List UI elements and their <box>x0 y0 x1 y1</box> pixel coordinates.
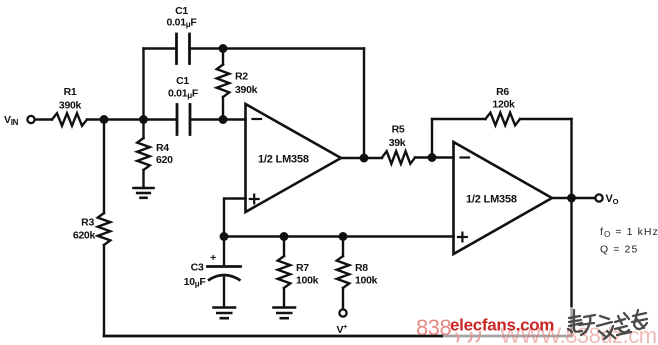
ground (C3) <box>214 306 236 309</box>
node F <box>428 153 437 162</box>
svg-text:100k: 100k <box>296 275 319 287</box>
svg-text:C1: C1 <box>176 75 189 87</box>
resistor R4 <box>142 120 144 139</box>
wire down to op-amp output <box>363 49 365 159</box>
wire R6 branch up <box>431 119 433 158</box>
svg-text:R7: R7 <box>296 262 309 274</box>
wire <box>415 156 454 158</box>
ground (R7) <box>274 306 296 309</box>
svg-text:120k: 120k <box>492 99 515 111</box>
watermark overlay band <box>443 307 658 345</box>
op-amp U1B triangle <box>454 142 553 254</box>
svg-text:+: + <box>210 252 216 264</box>
resistor R2 <box>222 49 224 65</box>
node I (R8) <box>339 232 348 241</box>
op-amp U1A plus sign <box>250 198 259 200</box>
svg-text:R3: R3 <box>81 217 94 229</box>
svg-text:C3: C3 <box>191 262 204 274</box>
node B <box>139 115 148 124</box>
wire <box>87 118 177 120</box>
op-amp U1B plus sign <box>458 236 467 238</box>
wire <box>103 245 105 336</box>
svg-text:390k: 390k <box>59 100 82 112</box>
svg-text:100k: 100k <box>355 275 378 287</box>
capacitor C1 (lower) <box>176 105 179 135</box>
ground (R4) <box>134 187 154 190</box>
node J (op2 output) <box>567 194 576 203</box>
svg-text:620: 620 <box>156 154 173 166</box>
wire plus input <box>224 199 246 237</box>
svg-text:0.01μF: 0.01μF <box>168 88 199 101</box>
capacitor C3 <box>223 237 225 267</box>
bottom rail <box>224 235 454 237</box>
resistor R1 <box>52 113 87 126</box>
terminal V+ <box>339 309 346 316</box>
svg-text:elecfans.com: elecfans.com <box>450 316 554 335</box>
op-amp U1A triangle <box>246 104 342 212</box>
terminal VO <box>595 194 602 201</box>
wire op1 output <box>341 157 382 159</box>
svg-text:620k: 620k <box>73 230 96 242</box>
resistor R7 <box>283 237 285 257</box>
wire <box>190 118 246 120</box>
op-amp U1B minus sign <box>461 156 470 158</box>
wire feedback down <box>570 198 572 336</box>
svg-text:R1: R1 <box>64 86 77 98</box>
svg-text:1/2 LM358: 1/2 LM358 <box>466 194 517 206</box>
resistor R5 <box>382 151 415 164</box>
svg-text:R2: R2 <box>235 71 248 83</box>
svg-text:838: 838 <box>416 315 451 340</box>
node E (op1 output) <box>360 154 369 163</box>
wire op2 output <box>552 197 595 199</box>
op-amp U1A minus sign <box>253 118 262 120</box>
wire top rail right <box>190 47 365 49</box>
bottom feedback rail <box>104 335 572 338</box>
node H (R7) <box>280 232 289 241</box>
resistor R8 <box>342 237 344 257</box>
resistor R6 <box>486 113 521 126</box>
wire top rail left <box>144 47 177 49</box>
svg-text:R5: R5 <box>392 124 405 136</box>
input terminal VIN <box>27 116 34 123</box>
wire top branch vertical <box>142 49 144 120</box>
node G (C3) <box>220 232 229 241</box>
node D <box>219 115 228 124</box>
resistor R3 <box>98 213 111 245</box>
wire R3 branch vertical <box>103 120 105 214</box>
svg-text:390k: 390k <box>235 84 258 96</box>
node C <box>219 44 228 53</box>
svg-text:39k: 39k <box>389 137 406 149</box>
svg-text:C1: C1 <box>175 5 188 17</box>
watermark pink glyph blobs (hidden CJK) <box>456 331 480 342</box>
svg-text:R6: R6 <box>496 86 509 98</box>
watermark gray chinese glyphs <box>568 310 647 339</box>
svg-text:1/2 LM358: 1/2 LM358 <box>258 154 309 166</box>
svg-text:0.01μF: 0.01μF <box>167 17 198 30</box>
svg-text:R8: R8 <box>355 262 368 274</box>
wire <box>520 118 572 120</box>
capacitor C1 (top) <box>175 34 178 64</box>
wire <box>36 118 53 120</box>
svg-text:Q = 25: Q = 25 <box>600 244 638 256</box>
node A <box>100 115 109 124</box>
svg-text:R4: R4 <box>156 142 169 154</box>
